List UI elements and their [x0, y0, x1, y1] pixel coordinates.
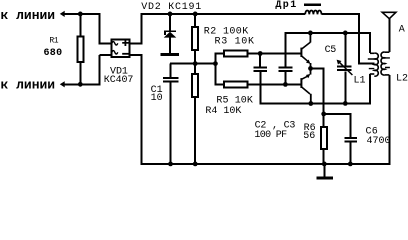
wire tank node top (Q1 collector row)	[284, 32, 371, 34]
node R3/R5 junction on bias rail	[213, 61, 218, 66]
wire C3 top lead from tank node	[284, 33, 286, 67]
node C1 on bottom rail	[168, 162, 173, 167]
svg-text:100 PF: 100 PF	[254, 130, 287, 141]
transistor Q2 base bar	[300, 78, 302, 88]
resistor R5	[224, 82, 248, 88]
resistor R4	[192, 74, 198, 97]
wire top supply rail (right of choke)	[321, 13, 360, 15]
node C5 top on tank wire	[343, 31, 348, 36]
wire bridge upper-right output	[130, 43, 143, 45]
svg-text:56: 56	[303, 131, 315, 142]
wire VD2 to ground bar	[169, 37, 171, 53]
wire L1 bottom lead	[369, 74, 371, 104]
wire R1 bottom lead	[79, 63, 81, 85]
wire C6 bottom lead	[350, 142, 352, 165]
label pointer dash after Др1	[304, 4, 321, 6]
wire top-left input	[64, 13, 100, 15]
svg-text:к линии: к линии	[1, 8, 56, 23]
wire tank bottom row	[260, 102, 371, 104]
wire R6 bottom lead	[323, 150, 325, 165]
wire R6 node to C6	[324, 113, 352, 115]
node Q2 lower lead on tank bottom wire	[308, 101, 313, 106]
wire bias rail corner down to C1	[170, 64, 172, 78]
resistor R6	[321, 127, 327, 149]
svg-text:А: А	[399, 25, 405, 36]
wire C2 top lead	[259, 54, 261, 67]
wire down from emitter node branch	[323, 69, 325, 115]
svg-text:КС407: КС407	[104, 75, 134, 86]
capacitor C2 plates	[253, 66, 267, 68]
wire bias rail from C1 to R3/R5 node	[170, 63, 216, 65]
svg-text:10: 10	[151, 93, 163, 104]
wire C2 bottom lead	[259, 72, 261, 104]
wire minus output down to bottom rail	[141, 55, 143, 165]
wire C5 bottom lead	[344, 71, 346, 103]
wire C5 top lead	[344, 33, 346, 66]
VD1 AC squiggle upper	[112, 42, 118, 45]
L1 bottom exit	[370, 73, 375, 75]
svg-text:C5: C5	[325, 45, 337, 56]
resistor R1	[78, 36, 84, 61]
wire bridge lower-right output	[130, 54, 143, 56]
wire R4 bottom lead	[194, 98, 196, 165]
wire R1 top lead	[79, 14, 81, 36]
node Q1 emitter / Q2 node	[308, 66, 313, 71]
zener diode VD2 cathode bar with tail	[164, 30, 176, 32]
inductor choke Др1 (4 humps in rail)	[305, 10, 321, 14]
node junction R1 top	[78, 12, 83, 17]
node bias rail at R2/R4	[193, 61, 198, 66]
L2 bottom exit	[385, 74, 389, 76]
wire C6 top lead corner	[350, 114, 352, 137]
svg-text:R4 10K: R4 10K	[205, 106, 241, 117]
svg-text:L1: L1	[354, 75, 366, 86]
capacitor C1 plates	[163, 77, 179, 79]
arrow to line (top)	[60, 11, 65, 17]
transistor Q1 base bar	[300, 48, 302, 57]
resistor R3	[224, 51, 248, 57]
wire supply tap into L1	[359, 63, 374, 65]
wire R3 left lead	[215, 53, 224, 55]
node ground junction on bottom rail	[322, 162, 327, 167]
VD1 plus terminal mark	[122, 42, 128, 44]
node C2 top / R3 / Q1 base	[258, 51, 263, 56]
wire L2 bottom lead	[388, 75, 390, 165]
VD1 AC squiggle lower	[112, 51, 118, 54]
wire C1 bottom lead	[170, 82, 172, 164]
wire VD2 anode lead	[169, 14, 171, 31]
wire R6 top lead	[323, 114, 325, 127]
svg-text:680: 680	[44, 48, 63, 59]
wire R2 top lead	[194, 14, 196, 27]
wire R2 bottom to R4 top	[194, 50, 196, 74]
Q1 collector lead	[310, 33, 312, 43]
wire into bridge lower-left pin	[99, 54, 111, 56]
wire top-left corner down to bridge input	[98, 13, 100, 45]
wire R3 right to Q1 base	[248, 53, 302, 55]
svg-text:R3 10K: R3 10K	[215, 37, 255, 48]
wire L1 top lead	[369, 33, 371, 53]
node C5 bottom on tank bottom wire	[343, 101, 348, 106]
wire bottom-left corner up to bridge input	[98, 55, 100, 85]
Q1 emitter lead with arrow	[302, 56, 309, 62]
svg-text:VD2 КС191: VD2 КС191	[141, 2, 202, 13]
wire emitter node to R6 branch	[311, 68, 325, 70]
inductor L2 (coil, humps left)	[385, 51, 389, 53]
wire bottom-left input	[64, 83, 100, 85]
node VD2 on top rail	[168, 12, 173, 17]
antenna symbol	[382, 12, 396, 18]
VD1 minus terminal mark	[122, 53, 128, 55]
inductor L1 (tapped coil, humps right)	[370, 52, 374, 54]
resistor R2	[192, 27, 198, 50]
svg-text:4700: 4700	[367, 136, 391, 147]
wire ground stub	[323, 164, 325, 177]
node R4 on bottom rail	[193, 162, 198, 167]
wire bottom common rail	[141, 163, 391, 165]
svg-text:L2: L2	[396, 74, 408, 85]
Q2 upper lead with arrow (to emitter node)	[310, 68, 312, 74]
wire R5 right to Q2 base	[248, 83, 302, 85]
wire antenna mast / L2 top lead	[388, 18, 390, 52]
bridge rectifier VD1 body	[111, 39, 129, 57]
node C6 on bottom rail	[348, 162, 353, 167]
C5 variable-capacitor arrow	[338, 61, 352, 75]
svg-text:Др1: Др1	[275, 0, 297, 11]
node R2 on top rail	[193, 12, 198, 17]
node junction R1 bottom	[78, 82, 83, 87]
ground symbol	[316, 176, 333, 179]
wire R5 left lead	[215, 83, 224, 85]
capacitor C3 plates	[279, 66, 293, 68]
ground bar under VD2	[161, 53, 179, 56]
node R6 top junction	[321, 112, 326, 117]
wire R3/R5 left connector	[214, 53, 216, 86]
wire rail corner down to L1 tap	[358, 13, 360, 64]
capacitor C5 plates (variable)	[337, 66, 352, 68]
node C3 bottom / Q2 base wire	[283, 82, 288, 87]
svg-text:R1: R1	[49, 37, 58, 46]
wire top supply rail (left of choke)	[142, 13, 306, 15]
arrow to line (bottom)	[60, 81, 65, 87]
wire plus output up to top rail	[141, 13, 143, 45]
zener diode VD2 triangle	[164, 32, 177, 38]
Q2 lower lead	[302, 87, 311, 94]
wire into bridge upper-left pin	[99, 43, 111, 45]
wire C3 bottom lead	[284, 72, 286, 84]
svg-text:R5 10K: R5 10K	[216, 96, 253, 107]
node Q1 collector on tank wire	[308, 31, 313, 36]
svg-text:к линии: к линии	[1, 78, 56, 93]
capacitor C6 plates	[345, 137, 358, 139]
